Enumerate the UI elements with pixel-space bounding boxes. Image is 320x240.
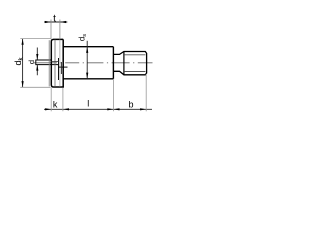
shank (shoulder) — [63, 47, 113, 79]
svg-text:k: k — [53, 100, 58, 110]
dimension ds (shoulder) — [86, 41, 88, 79]
dimension d (pin) — [36, 48, 38, 76]
k arrows (outside) — [45, 108, 51, 110]
head inner line gray mid — [54, 40, 56, 87]
bottom dimension chain k, l, b — [44, 74, 152, 112]
slot bottom line — [59, 40, 61, 87]
svg-text:b: b — [128, 100, 133, 110]
thread minor lines — [124, 55, 145, 72]
b arrows — [113, 108, 119, 110]
neck and thread outline — [113, 52, 146, 75]
dimension dk (left) — [20, 39, 50, 88]
l arrows (inside) — [107, 108, 113, 110]
head inner line gray left — [48, 40, 50, 86]
svg-text:l: l — [87, 99, 89, 109]
svg-text:t: t — [53, 14, 56, 25]
svg-text:d: d — [27, 60, 36, 64]
center line — [34, 62, 153, 64]
slot section lines — [58, 58, 60, 80]
head outline — [51, 39, 63, 87]
dimension t (top) — [44, 20, 67, 40]
pin d (left boss) — [36, 60, 59, 65]
